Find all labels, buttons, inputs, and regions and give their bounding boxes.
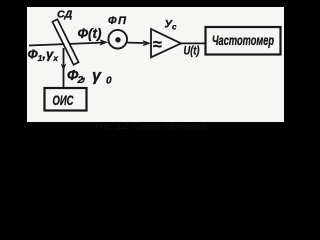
svg-text:Ф(t): Ф(t) [78,26,103,41]
svg-text:0: 0 [106,75,112,86]
svg-text:≈: ≈ [153,36,162,53]
svg-text:U(t): U(t) [184,45,200,57]
svg-text:Ф1,γx: Ф1,γx [28,46,60,63]
svg-text:СД: СД [57,8,73,20]
svg-text:,: , [81,68,86,84]
svg-text:ОИС: ОИС [53,92,75,108]
svg-text:γ: γ [92,67,102,84]
svg-text:ФП: ФП [108,15,127,27]
svg-text:Уc: Уc [165,18,177,31]
svg-text:Частотомер: Частотомер [212,32,274,48]
